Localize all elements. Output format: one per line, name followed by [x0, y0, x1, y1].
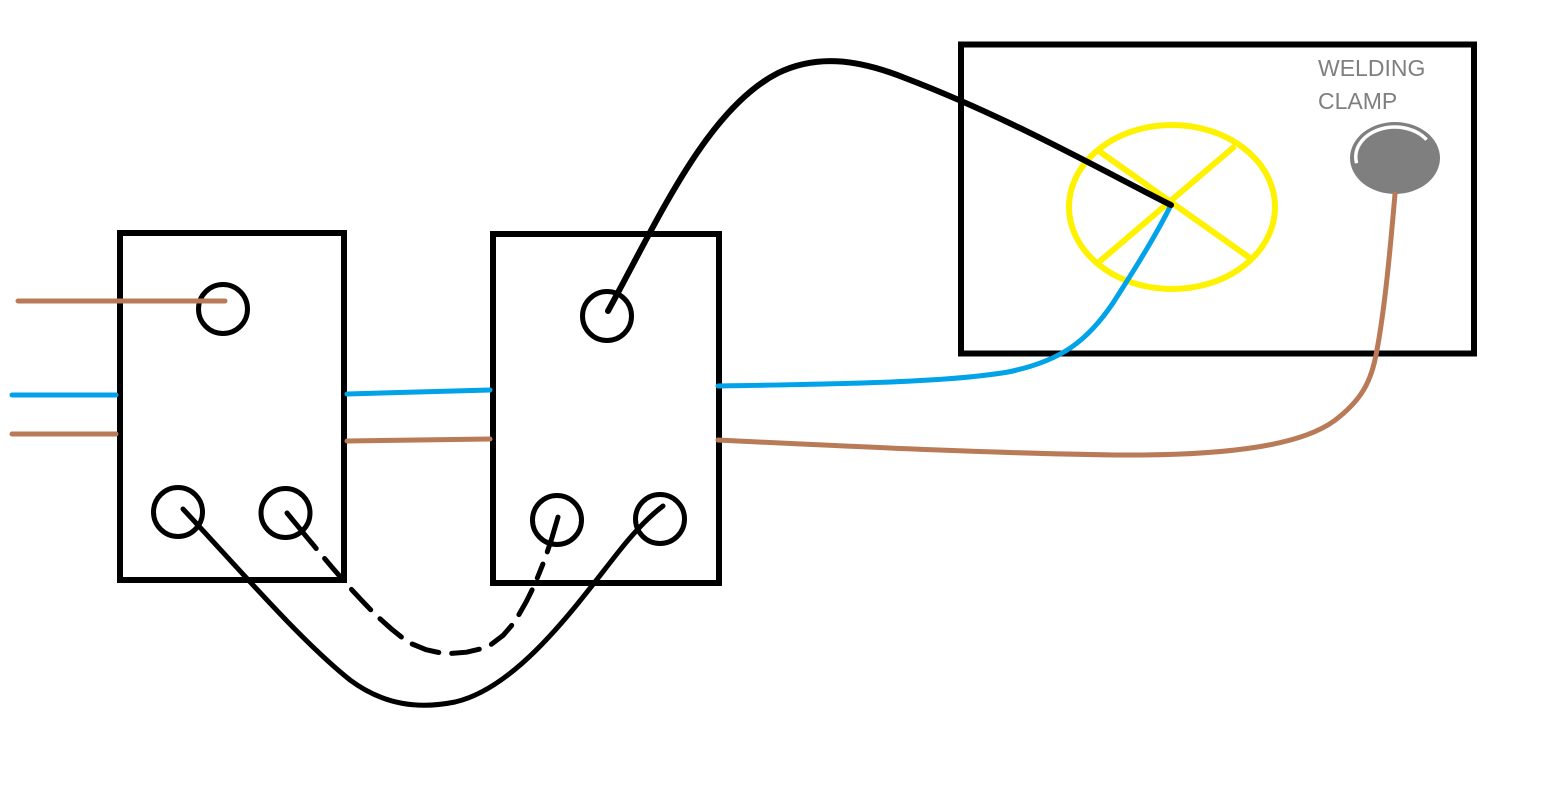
svg-text:WELDING: WELDING: [1318, 55, 1425, 81]
svg-text:CLAMP: CLAMP: [1318, 88, 1397, 114]
